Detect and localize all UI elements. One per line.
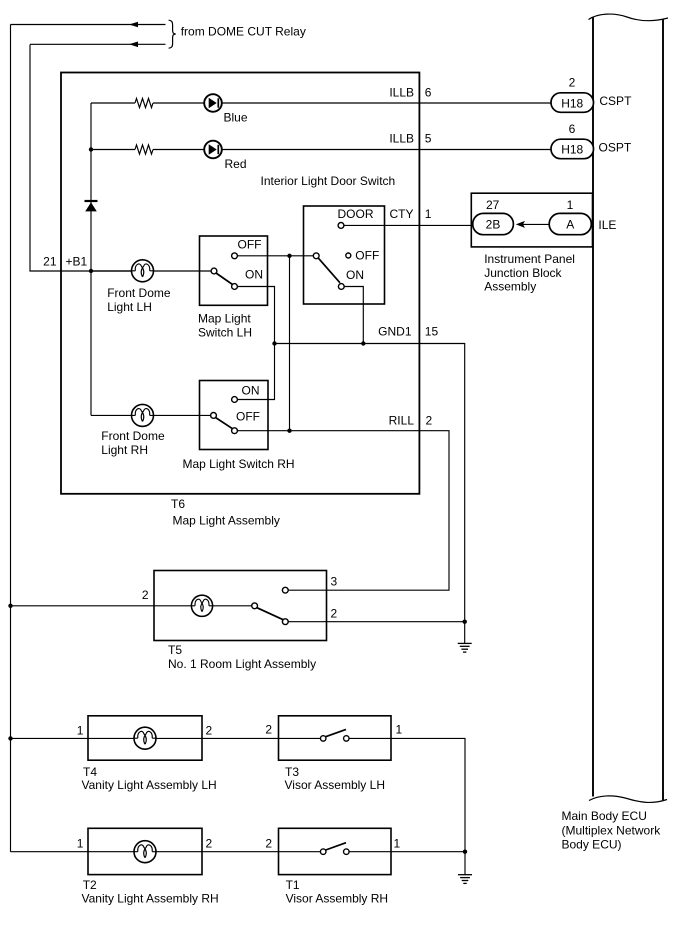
wire: left bus vertical x=10.5 [10,25,12,852]
wire: Front Dome RH row y=415.4 [91,414,211,416]
wire: DOOR CTY to 2B oval [341,224,474,226]
svg-text:Vanity Light Assembly LH: Vanity Light Assembly LH [82,778,217,792]
svg-text:+B1: +B1 [66,255,88,269]
svg-text:Blue: Blue [224,111,248,125]
svg-text:OFF: OFF [236,409,260,423]
wire: T5 pin 2 left to left bus [11,605,255,607]
contact: LH ON [232,284,238,290]
svg-text:ON: ON [242,384,260,398]
box: Map Light Switch RH [200,381,269,450]
box: Instrument Panel Junction Block [471,193,592,247]
contact: RH common [211,413,217,419]
svg-text:2B: 2B [486,218,501,232]
box: T3 Visor Assembly LH [279,716,392,760]
box: T5 No.1 Room Light Assembly [154,571,327,641]
svg-text:Instrument Panel: Instrument Panel [484,252,575,266]
svg-text:2: 2 [331,607,338,621]
wire: DOME CUT relay feed 2 [30,43,166,45]
ground symbol at GND1 [458,643,472,652]
svg-text:OFF: OFF [238,238,262,252]
svg-text:Red: Red [225,157,247,171]
lamp: Front Dome Light RH [132,404,154,426]
junction dot x91 +B1 row [89,269,93,273]
svg-text:2: 2 [206,724,213,738]
ground symbol at visor RH [458,875,472,884]
ECU strip top torn edge [589,14,669,21]
contact: T1 left [320,849,326,855]
junction dot GND1 x274.5 [272,341,276,345]
lamp: Front Dome Light LH [132,260,154,282]
switch: Map Light Switch LH lever [216,273,233,285]
svg-text:5: 5 [425,132,432,146]
svg-text:6: 6 [569,122,576,136]
svg-text:T2: T2 [83,878,97,892]
svg-text:2: 2 [206,837,213,851]
diode (on x=91 bus) [85,201,98,211]
wire: visor LH output to right bus [346,738,465,851]
contact: T3 right [344,736,350,742]
switch: T1 visor lever [326,843,346,850]
connector oval H18 pin 6 [551,139,594,159]
svg-text:CSPT: CSPT [599,94,632,108]
svg-text:1: 1 [567,198,574,212]
wire: ILLB 6 row y=103 [91,102,135,104]
svg-text:ON: ON [245,268,263,282]
lamp: T5 room light bulb [191,595,212,616]
svg-text:27: 27 [486,198,500,212]
brace for DOME CUT relay label [169,20,176,48]
svg-text:A: A [566,218,574,232]
wire: +B1 feed vertical x=30 [30,45,132,272]
svg-text:T1: T1 [286,878,300,892]
svg-text:Assembly: Assembly [484,280,536,294]
svg-text:3: 3 [331,575,338,589]
wire: RILL net y=430.7 to T5 pin 3 [235,431,450,591]
svg-text:Switch LH: Switch LH [198,326,252,340]
svg-text:2: 2 [426,414,433,428]
svg-text:2: 2 [265,837,272,851]
contact: RH OFF [232,428,238,434]
switch: DOOR lever [318,258,340,283]
wire: DOOR ON contact down to GND1 [341,287,363,344]
svg-text:Body ECU): Body ECU) [562,838,622,852]
svg-text:Visor Assembly LH: Visor Assembly LH [285,778,385,792]
junction dot GND1 at T5 pin2 [463,620,467,624]
svg-text:ILLB: ILLB [389,86,414,100]
svg-text:ON: ON [346,268,364,282]
junction dot left bus T5 [8,604,12,608]
junction dot GND1 x363.3 [361,341,365,345]
svg-text:GND1: GND1 [378,325,412,339]
contact: LH common [211,268,217,274]
svg-text:OSPT: OSPT [599,140,632,154]
svg-text:ILLB: ILLB [389,132,414,146]
svg-text:Front Dome: Front Dome [107,286,171,300]
contact: DOOR ON [338,284,344,290]
svg-text:1: 1 [425,207,432,221]
ECU strip bottom torn edge [589,796,667,803]
contact: DOOR OFF [346,253,351,258]
svg-text:Map Light: Map Light [198,312,251,326]
box: T4 Vanity Light Assembly LH [88,716,202,760]
junction dot right bus bottom [463,850,467,854]
wire: DOME CUT relay feed 1 (top) [11,24,166,26]
svg-text:15: 15 [425,325,439,339]
svg-text:RILL: RILL [389,414,415,428]
svg-text:T6: T6 [171,497,185,511]
svg-text:Light RH: Light RH [101,443,148,457]
lamp: T4 vanity bulb [134,727,156,749]
junction dot RILL bottom [287,429,291,433]
arrowhead on feed 1 [129,22,138,28]
wire: LH switch OFF contact to DOOR common [235,255,317,257]
contact: T3 left [320,736,326,742]
LED Red [204,141,222,159]
resistor (ILLB 5 row) [135,145,153,154]
svg-text:H18: H18 [561,96,583,110]
junction dot left bus T4 [8,736,12,740]
svg-text:Main Body ECU: Main Body ECU [562,809,647,823]
connector oval 2B [473,213,514,234]
wire: +B1 row to Map Light Switch LH [91,270,211,272]
switch: T5 lever [257,608,284,620]
lamp: T2 vanity bulb [134,841,156,863]
svg-text:ILE: ILE [598,218,616,232]
box: T2 Vanity Light Assembly RH [88,828,202,874]
wire: visor RH output to ground [346,852,465,875]
svg-text:No. 1 Room Light Assembly: No. 1 Room Light Assembly [168,657,316,671]
svg-text:H18: H18 [561,143,583,157]
wire: ILLB 5 row y=149.5 [91,149,135,151]
svg-text:Visor Assembly RH: Visor Assembly RH [286,892,388,906]
wire: GND1 net y=343.5 to ground [275,344,465,644]
wire: T5 pin 2 right to GND1 [285,621,464,623]
box: Interior Light Door Switch (DOOR) [304,206,385,304]
wire: LED bus vertical x=91 [90,103,92,415]
svg-text:T5: T5 [168,643,182,657]
contact: T1 right [344,849,350,855]
contact: RH ON [232,397,238,403]
svg-text:1: 1 [394,837,401,851]
svg-text:Interior Light Door Switch: Interior Light Door Switch [261,174,396,188]
svg-text:1: 1 [396,723,403,737]
svg-text:Light LH: Light LH [107,300,152,314]
svg-text:2: 2 [569,76,576,90]
svg-text:Junction Block: Junction Block [484,266,562,280]
svg-text:2: 2 [265,723,272,737]
contact: DOOR cty [338,223,344,229]
svg-text:Map Light Assembly: Map Light Assembly [173,514,280,528]
wire: RILL vertical x=289.5 [289,256,291,431]
svg-text:6: 6 [425,86,432,100]
box: T6 Map Light Assembly outer [61,73,419,494]
LED Blue [204,94,222,112]
arrowhead on feed 2 [129,42,138,48]
contact: T5 pin 3 [282,587,288,593]
connector oval A [549,213,591,234]
box: T1 Visor Assembly RH [279,828,392,874]
svg-text:OFF: OFF [355,249,379,263]
wire: vanity LH row y=738.4 [11,737,324,739]
svg-text:(Multiplex Network: (Multiplex Network [562,823,662,837]
svg-text:Front Dome: Front Dome [101,429,165,443]
svg-text:Map Light Switch RH: Map Light Switch RH [183,457,295,471]
svg-text:from DOME CUT Relay: from DOME CUT Relay [181,25,306,39]
box: Map Light Switch LH [200,236,268,305]
connector oval H18 pin 2 [551,93,594,113]
contact: T5 common [252,603,258,609]
svg-text:Vanity Light Assembly RH: Vanity Light Assembly RH [82,892,219,906]
contact: T5 pin 2 [282,619,288,625]
ECU connector strip left edge [592,18,594,797]
wire: A oval to arrow [523,223,549,225]
svg-text:2: 2 [142,588,149,602]
wire: vanity RH row y=851.7 [11,851,324,853]
svg-text:1: 1 [77,724,84,738]
ECU connector strip right edge [662,19,664,800]
svg-text:1: 1 [77,837,84,851]
arrowhead into 2B [516,221,525,228]
switch: Map Light Switch RH lever [216,418,233,429]
junction dot x91 ILLB5 [89,147,93,151]
contact: LH OFF [232,253,238,259]
contact: DOOR common [313,253,319,259]
switch: T3 visor lever [326,729,346,736]
svg-text:21: 21 [43,255,57,269]
svg-text:CTY: CTY [390,207,414,221]
junction dot RILL top [287,254,291,258]
wire: LH ON to RH ON vertical x=274.5 [235,287,275,400]
resistor (ILLB 6 row) [135,98,153,107]
svg-text:DOOR: DOOR [338,207,374,221]
